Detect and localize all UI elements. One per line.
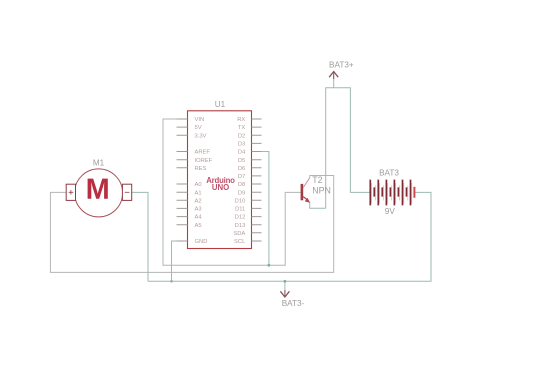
svg-text:D5: D5 xyxy=(238,158,245,164)
svg-text:D2: D2 xyxy=(238,133,245,139)
svg-text:D7: D7 xyxy=(238,174,245,180)
svg-text:D8: D8 xyxy=(238,182,245,188)
svg-text:UNO: UNO xyxy=(212,183,229,192)
svg-text:D13: D13 xyxy=(235,223,246,229)
svg-text:D4: D4 xyxy=(238,150,246,156)
svg-text:GND: GND xyxy=(195,239,208,245)
svg-text:AREF: AREF xyxy=(195,150,211,156)
svg-text:SCL: SCL xyxy=(234,239,246,245)
svg-text:D6: D6 xyxy=(238,166,245,172)
svg-text:M1: M1 xyxy=(93,159,105,168)
svg-text:U1: U1 xyxy=(215,100,226,109)
svg-text:A4: A4 xyxy=(195,215,203,221)
svg-text:5V: 5V xyxy=(195,125,202,131)
svg-text:BAT3: BAT3 xyxy=(379,169,399,178)
svg-text:D11: D11 xyxy=(235,207,245,213)
svg-text:IOREF: IOREF xyxy=(195,158,213,164)
svg-text:A0: A0 xyxy=(195,182,202,188)
svg-text:A2: A2 xyxy=(195,198,202,204)
svg-text:A1: A1 xyxy=(195,190,202,196)
svg-text:D9: D9 xyxy=(238,190,245,196)
svg-text:A3: A3 xyxy=(195,207,202,213)
svg-text:SDA: SDA xyxy=(233,231,245,237)
svg-text:RX: RX xyxy=(237,117,245,123)
svg-text:A5: A5 xyxy=(195,223,202,229)
svg-text:VIN: VIN xyxy=(195,117,205,123)
svg-text:RES: RES xyxy=(195,166,207,172)
svg-text:9V: 9V xyxy=(385,207,396,216)
svg-text:T2: T2 xyxy=(312,175,322,185)
svg-text:3.3V: 3.3V xyxy=(195,133,207,139)
svg-text:D10: D10 xyxy=(235,198,246,204)
svg-text:NPN: NPN xyxy=(312,186,331,196)
svg-text:TX: TX xyxy=(238,125,246,131)
svg-text:D3: D3 xyxy=(238,142,245,148)
svg-text:D12: D12 xyxy=(235,215,246,221)
svg-text:BAT3+: BAT3+ xyxy=(329,60,354,69)
svg-text:BAT3-: BAT3- xyxy=(282,299,305,308)
